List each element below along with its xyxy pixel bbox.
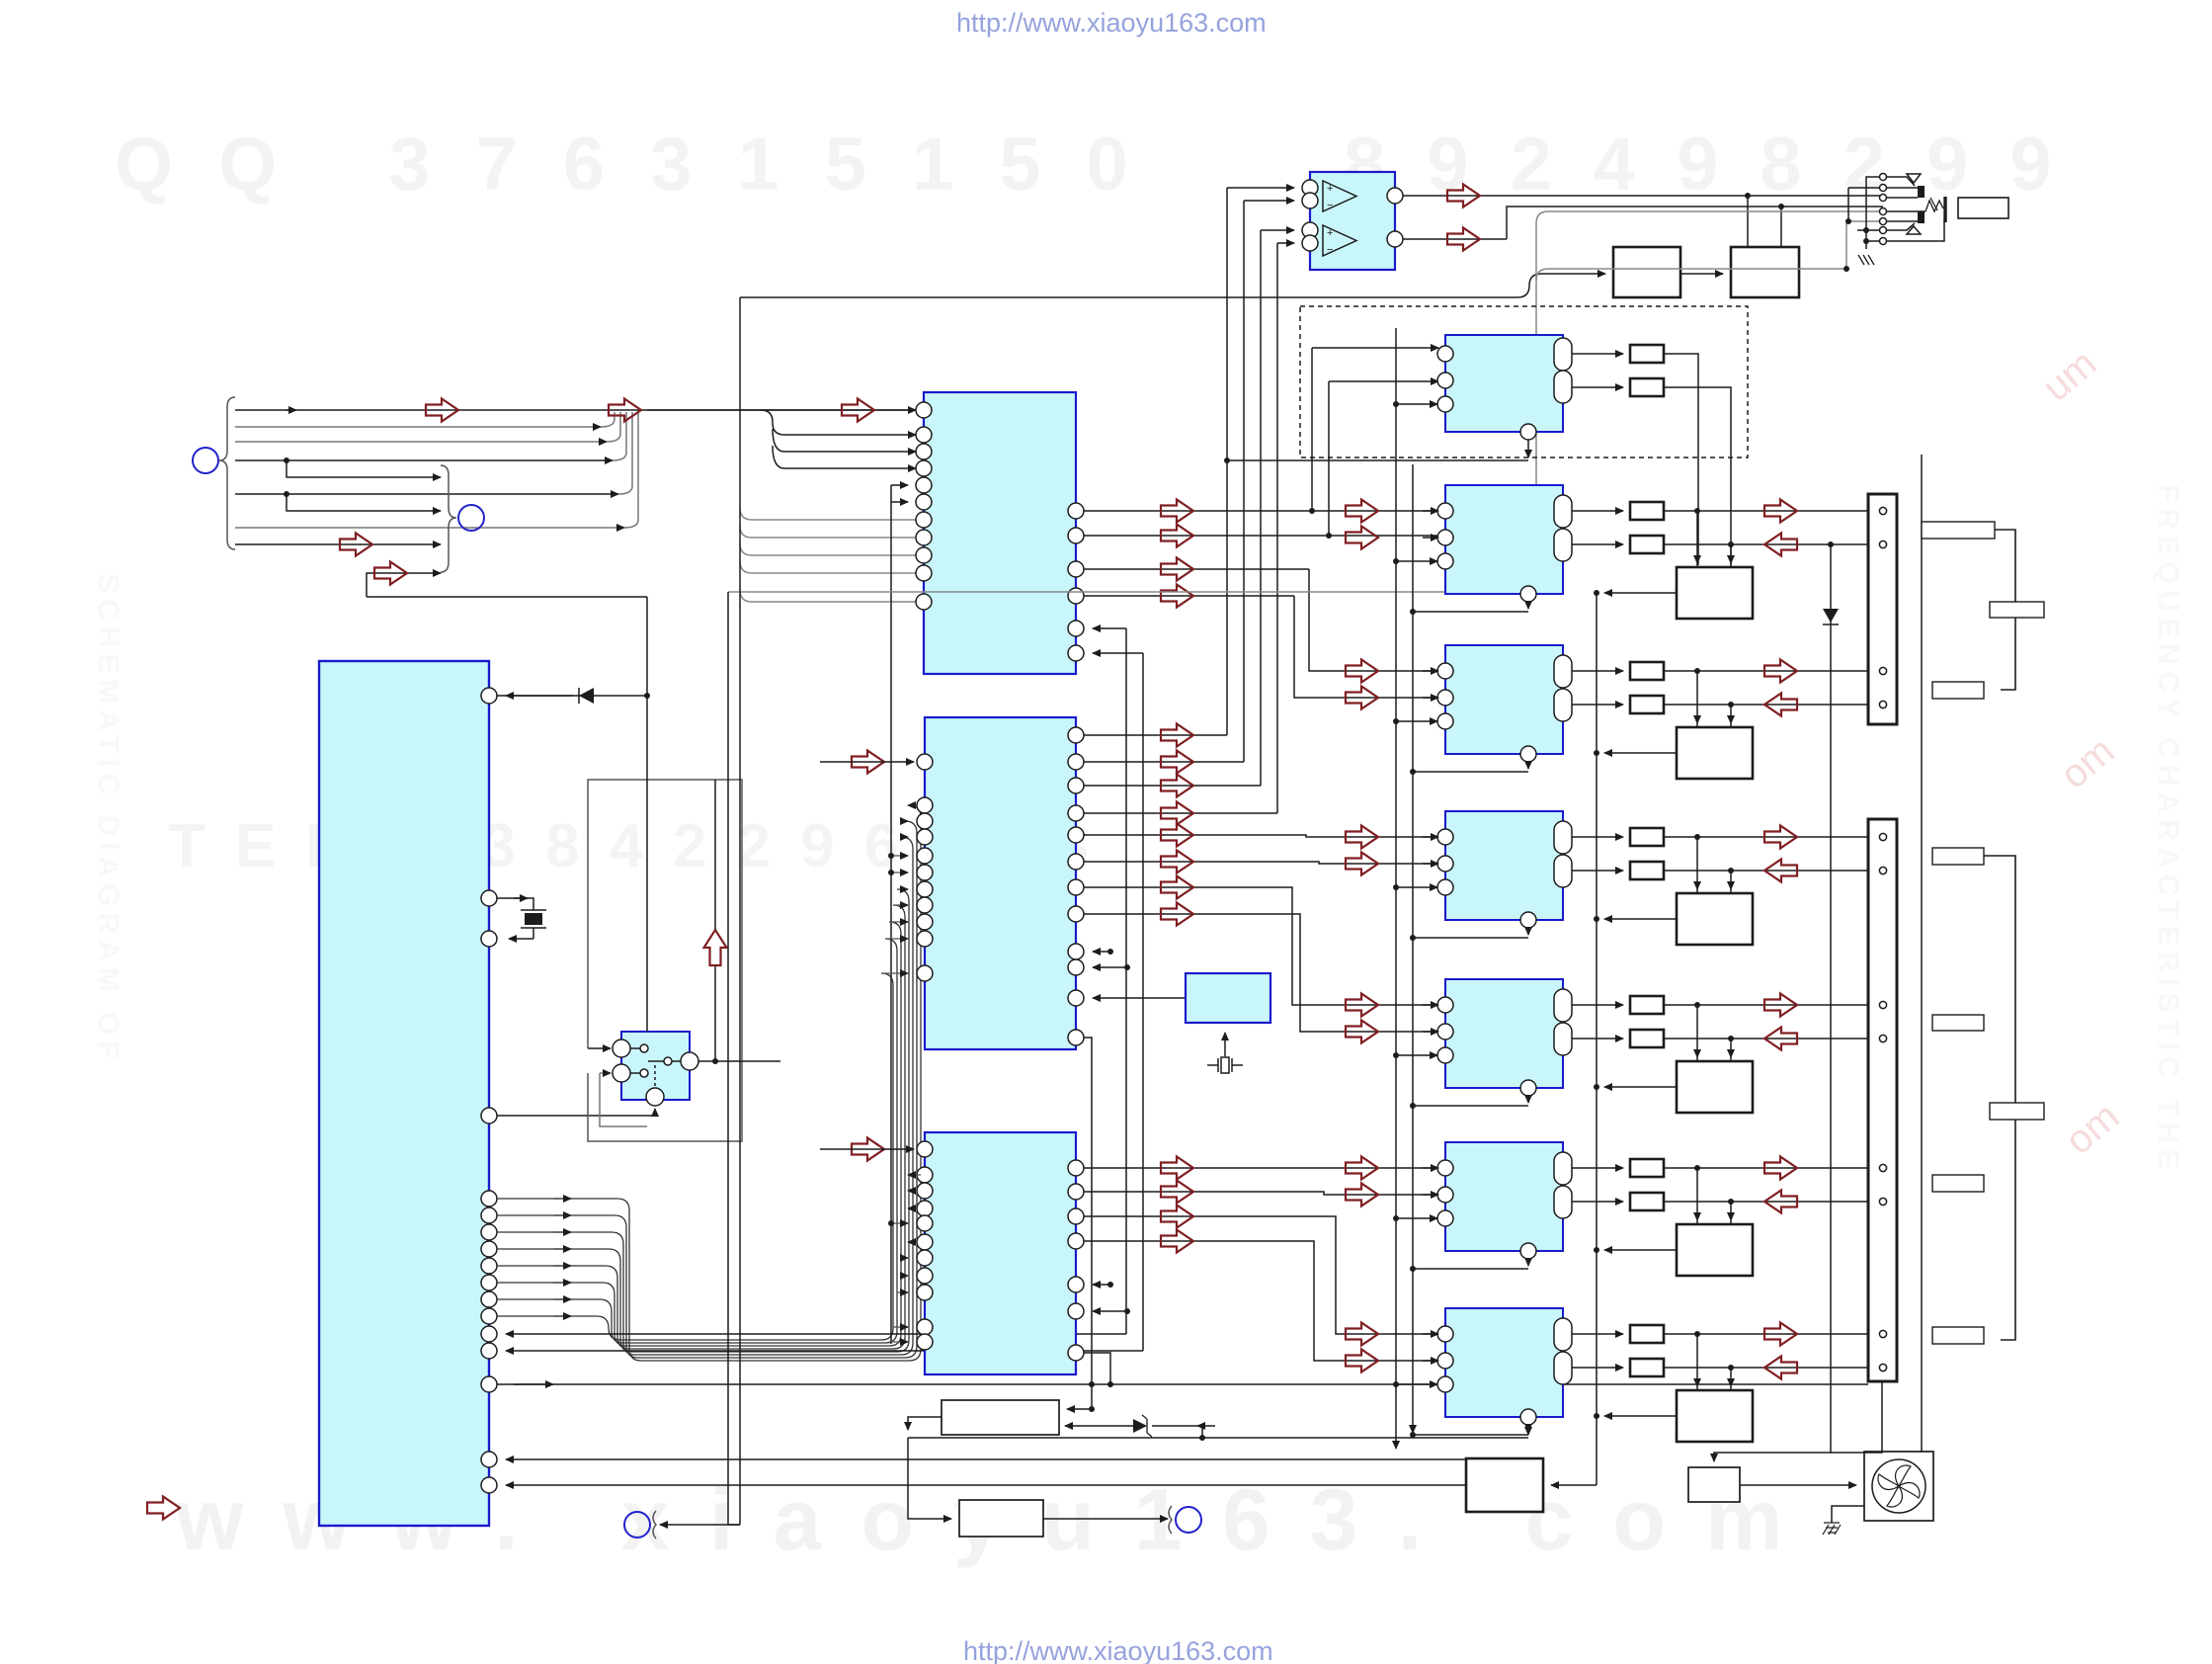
junction	[1393, 884, 1399, 890]
output stage box	[1677, 1224, 1753, 1276]
wire	[506, 1458, 1466, 1460]
wire to lower box	[908, 1438, 951, 1519]
strip pin	[1879, 701, 1886, 707]
wire out1	[1664, 1167, 1875, 1169]
MCU data pins	[481, 1191, 497, 1206]
bus vertical v14 with diode	[1714, 544, 1831, 1461]
junction	[1393, 1215, 1399, 1221]
junction	[1728, 1036, 1734, 1041]
wire	[235, 543, 441, 545]
center vertical bundle	[1226, 188, 1228, 735]
output stadium	[1554, 1352, 1572, 1384]
center control box	[1466, 1458, 1543, 1512]
svg-text:−: −	[1327, 200, 1333, 211]
wire	[1527, 440, 1529, 458]
jack contacts	[1887, 177, 1944, 241]
wire to resistor	[1572, 510, 1623, 512]
diode D1	[497, 688, 647, 704]
driver IC row1	[1445, 335, 1563, 432]
svg-text:SCHEMATIC DIAGRAM OF: SCHEMATIC DIAGRAM OF	[92, 573, 124, 1065]
wire to resistor	[1572, 870, 1623, 872]
svg-text:um: um	[2035, 341, 2105, 409]
svg-text:om: om	[2053, 728, 2123, 796]
pin	[1437, 373, 1453, 388]
block3 out wires	[1084, 1168, 1437, 1361]
wire	[820, 1148, 914, 1150]
strip pin	[1879, 1198, 1886, 1205]
output stadium	[1554, 655, 1572, 688]
signal arrow return	[1764, 694, 1797, 716]
brace left	[219, 397, 235, 549]
junction	[284, 491, 289, 497]
wire	[287, 460, 441, 477]
block3 right pins	[1068, 1160, 1084, 1176]
pin	[1437, 663, 1453, 679]
IC display driver 3	[925, 1132, 1076, 1374]
wire down	[1084, 1353, 1110, 1384]
strip pin	[1879, 667, 1886, 674]
wire out1	[1664, 1004, 1875, 1006]
blue ring	[1176, 1507, 1201, 1533]
driver IC row3	[1445, 645, 1563, 754]
wire	[235, 527, 624, 529]
output stadium	[1554, 989, 1572, 1022]
wire out1	[1664, 670, 1875, 672]
wire down	[1084, 1038, 1092, 1383]
wire to resistor	[1572, 353, 1623, 355]
pin	[1437, 346, 1453, 362]
small driver box	[1688, 1467, 1740, 1502]
gray feed bundle	[740, 508, 916, 602]
resistor	[1630, 828, 1664, 846]
resistor	[1630, 1359, 1664, 1376]
pin bottom	[1520, 1409, 1536, 1425]
resistor	[1630, 1193, 1664, 1210]
output stadium	[1554, 529, 1572, 561]
pin	[1437, 1160, 1453, 1176]
label box	[1932, 682, 1984, 699]
signal arrow return	[1764, 1028, 1797, 1050]
pin	[1437, 503, 1453, 519]
op-amp B	[1323, 225, 1356, 256]
wire	[235, 493, 618, 495]
wire input	[1067, 1384, 1092, 1409]
junction	[1594, 590, 1599, 596]
tip rect hatched	[1918, 186, 1925, 198]
input arrow	[852, 751, 884, 774]
wire out1	[1664, 1333, 1875, 1335]
wire to resistor	[1572, 1201, 1623, 1203]
sleeve bar	[1943, 197, 1946, 222]
long vertical v7	[1125, 628, 1127, 1334]
black box B2	[1731, 247, 1799, 297]
wire input3	[1396, 403, 1437, 405]
switch pin bottom	[646, 1088, 664, 1106]
junction	[1410, 935, 1416, 941]
svg-text:+: +	[1327, 227, 1333, 239]
signal arrow out	[1764, 826, 1797, 849]
junction	[1393, 718, 1399, 724]
wire from bottom pin	[1527, 1096, 1529, 1103]
signal arrow	[1346, 660, 1378, 683]
wire input stub	[1423, 510, 1438, 512]
junction	[1594, 1084, 1599, 1090]
resistor	[1630, 1159, 1664, 1177]
wire up with arrow	[714, 966, 716, 1061]
junction	[1393, 401, 1399, 407]
long vertical v8	[1142, 653, 1144, 1351]
output stage box	[1677, 567, 1753, 619]
pin bottom	[1520, 586, 1536, 602]
signal arrow	[1346, 527, 1378, 549]
wire	[235, 426, 601, 428]
junction	[644, 693, 650, 699]
vertical gray riser	[728, 211, 1879, 592]
ground	[1823, 1523, 1841, 1535]
junction	[1694, 834, 1700, 840]
junction	[1594, 1413, 1599, 1419]
wire from top bus	[740, 274, 1605, 297]
driver IC row2	[1445, 485, 1563, 594]
opamp output pins	[1387, 188, 1403, 204]
junction	[1410, 1266, 1416, 1272]
output stadium	[1554, 1152, 1572, 1185]
output stadium	[1554, 371, 1572, 403]
resistor	[1630, 502, 1664, 520]
signal arrow out	[1764, 1323, 1797, 1346]
label box	[1922, 522, 1995, 539]
switch pin	[613, 1040, 630, 1057]
IC display driver 1	[924, 392, 1076, 674]
gray link to jack	[1846, 221, 1879, 269]
junction	[1393, 558, 1399, 564]
data bus wires	[497, 805, 921, 1361]
output stadium	[1554, 855, 1572, 887]
pin	[1437, 396, 1453, 412]
wire to ring	[1043, 1518, 1168, 1520]
strip pin	[1879, 1035, 1886, 1041]
loop wire rectangle	[588, 780, 742, 1141]
long vertical to fan	[1921, 455, 1923, 1452]
driver IC row6	[1445, 1142, 1563, 1251]
pin	[481, 931, 497, 947]
signal arrow	[1346, 1350, 1378, 1373]
wire to resistor	[1572, 1333, 1623, 1335]
wire riser to row2 box	[1664, 354, 1731, 565]
wire box to bus	[1604, 1249, 1677, 1251]
zener diode D3	[1133, 1419, 1147, 1433]
output stadium	[1554, 689, 1572, 721]
wire	[1227, 459, 1528, 461]
bracket	[1995, 530, 2015, 690]
junction	[1594, 1247, 1599, 1253]
resistor	[1630, 696, 1664, 713]
crystal X2	[1224, 1033, 1226, 1056]
wire to resistor	[1572, 1367, 1623, 1369]
signal arrow	[1346, 687, 1378, 709]
wire to fan	[1740, 1484, 1856, 1486]
resistor	[1630, 996, 1664, 1014]
wire arrowhead into pin	[506, 695, 573, 697]
output stage box	[1677, 1061, 1753, 1113]
wire box to bus	[1604, 1086, 1677, 1088]
junction	[1224, 458, 1230, 463]
wire box to bus	[1604, 1415, 1677, 1417]
wire to switch	[497, 1109, 655, 1116]
wire input3	[1396, 1383, 1437, 1385]
wire top feed	[647, 409, 916, 411]
resistor	[1630, 862, 1664, 879]
wire input3	[1396, 720, 1437, 722]
block1 right pins	[1068, 503, 1084, 519]
signal arrow out	[1764, 994, 1797, 1017]
wire input3	[1396, 1217, 1437, 1219]
arrows	[1161, 500, 1193, 523]
wire input stub	[1423, 1333, 1438, 1335]
junction	[1828, 541, 1834, 547]
feedback into pins 5,6	[1093, 627, 1126, 629]
block2 left pins	[917, 754, 933, 770]
signal arrow out	[1764, 660, 1797, 683]
signal arrow	[1346, 853, 1378, 875]
junction	[1393, 1381, 1399, 1387]
junction	[1393, 1052, 1399, 1058]
wire from bottom pin	[1527, 762, 1529, 769]
connector strip CN2	[1868, 819, 1897, 1381]
v4 bus	[890, 485, 892, 1344]
wire B1 to B2	[1680, 273, 1723, 275]
strip pin	[1879, 1330, 1886, 1337]
strip pin	[1879, 1001, 1886, 1008]
junction dots on long line	[1089, 1381, 1095, 1387]
wire	[287, 494, 441, 511]
wire from bottom pin	[1527, 1425, 1529, 1432]
long wire	[497, 1383, 1868, 1385]
crystal X1	[497, 898, 533, 939]
ground	[1858, 255, 1874, 265]
wire input stub	[1423, 1167, 1438, 1169]
junction	[1694, 1331, 1700, 1337]
wire to resistor	[1572, 543, 1623, 545]
feedback stubs	[1093, 951, 1110, 953]
wire drops to box	[1696, 1005, 1698, 1057]
resistor	[1630, 1325, 1664, 1343]
wire box to bus	[1604, 752, 1677, 754]
wire into switch pin2	[600, 1072, 611, 1074]
signal arrow return	[1764, 1357, 1797, 1379]
brace	[1169, 1506, 1172, 1534]
svg-text:om: om	[2058, 1094, 2128, 1162]
junction	[1694, 1165, 1700, 1171]
diode D2	[1823, 609, 1839, 623]
risers from row1 to row2 lines	[1312, 348, 1329, 536]
junction	[1410, 609, 1416, 615]
block2 out wires	[1084, 735, 1277, 813]
opamp input pins	[1302, 180, 1318, 196]
junction	[1728, 702, 1734, 707]
wire to resistor	[1572, 1004, 1623, 1006]
pin	[1437, 829, 1453, 845]
wire to resistor	[1572, 1167, 1623, 1169]
wire	[235, 441, 607, 443]
wire from switch out	[698, 1060, 780, 1062]
wire	[235, 459, 613, 461]
svg-text:892498299: 892498299	[1344, 123, 2092, 207]
wire to resistor	[1572, 836, 1623, 838]
signal arrow return	[1764, 534, 1797, 556]
fanout vertical	[761, 410, 897, 468]
junction	[284, 458, 289, 463]
wire out2	[1664, 704, 1875, 706]
wire to resistor	[1572, 670, 1623, 672]
fan box	[1864, 1452, 1933, 1521]
wire input3	[1396, 1054, 1437, 1056]
IC system control microprocessor	[319, 661, 489, 1526]
signal arrow	[1346, 1323, 1378, 1346]
output stadium	[1554, 1023, 1572, 1055]
junction	[1594, 916, 1599, 922]
signal arrow	[374, 562, 407, 585]
brace at ring	[653, 1511, 656, 1539]
pin	[1437, 856, 1453, 872]
svg-text:−: −	[1327, 244, 1333, 256]
pin bottom	[1520, 1080, 1536, 1096]
zigzag	[1925, 198, 1943, 211]
junction	[1410, 1103, 1416, 1109]
signal arrow	[1346, 1157, 1378, 1180]
wire input stub	[1423, 1004, 1438, 1006]
vertical wire v1	[646, 597, 648, 1032]
output wire 2	[1403, 207, 1883, 239]
svg-text:+: +	[1327, 183, 1333, 195]
wire to resistor	[1572, 704, 1623, 706]
brace right	[441, 465, 456, 572]
connector strip CN1	[1868, 494, 1897, 724]
switch block S1	[621, 1032, 690, 1100]
dashed enclosure	[1300, 306, 1748, 458]
block1 left pins	[916, 402, 932, 418]
svg-text:http://www.xiaoyu163.com: http://www.xiaoyu163.com	[963, 1636, 1273, 1664]
label box mid	[1990, 1103, 2044, 1120]
wire from resistor left	[908, 1417, 942, 1430]
pin	[1437, 997, 1453, 1013]
gray branch to jack	[1536, 269, 1846, 281]
wire strip2 drop	[1831, 1381, 1882, 1453]
wire drops to box	[1696, 671, 1698, 723]
IC headphone amp	[1310, 172, 1395, 270]
bracket 2	[1984, 856, 2015, 1340]
reset IC output wire	[1093, 997, 1186, 999]
fan M1	[1872, 1459, 1925, 1513]
junction	[1694, 668, 1700, 674]
vertical v2	[728, 297, 740, 1525]
wire out1	[1664, 510, 1875, 512]
junction	[1694, 1002, 1700, 1008]
block1 out wires	[1084, 510, 1437, 512]
output stage box	[1677, 1390, 1753, 1442]
pin	[1437, 530, 1453, 545]
IC display driver 2	[925, 717, 1076, 1049]
pin bottom	[1520, 424, 1536, 440]
connector ring P2	[458, 505, 484, 531]
junction	[1728, 1365, 1734, 1371]
switch contacts	[640, 1044, 648, 1052]
pin	[1437, 1353, 1453, 1369]
signal arrow return	[1764, 1191, 1797, 1213]
signal arrow out	[1764, 1157, 1797, 1180]
pin	[1437, 1376, 1453, 1392]
wire out2	[1664, 543, 1875, 545]
wire to resistor	[1572, 1038, 1623, 1040]
black box B1	[1613, 247, 1680, 297]
signal arrow	[1346, 826, 1378, 849]
input arrow	[852, 1138, 884, 1161]
bus vertical v12	[1412, 464, 1414, 1433]
resistor	[1630, 345, 1664, 363]
wire out2	[1664, 870, 1875, 872]
strip pin	[1879, 1164, 1886, 1171]
junction	[1694, 508, 1700, 514]
resistor	[1630, 1030, 1664, 1047]
wire drops to box	[1696, 511, 1698, 563]
stub wires	[908, 804, 909, 806]
blue ring bottom	[624, 1512, 650, 1538]
pin bottom	[1520, 746, 1536, 762]
wire input stub	[1423, 836, 1438, 838]
driver IC row4	[1445, 811, 1563, 920]
block3 left pins	[917, 1141, 933, 1157]
output stadium	[1554, 821, 1572, 854]
bundle curls merging to bus	[601, 412, 638, 528]
pin	[481, 890, 497, 906]
junction	[1594, 750, 1599, 756]
output stadium	[1554, 1318, 1572, 1351]
svg-text:FREQUENCY CHARACTERISTIC THE: FREQUENCY CHARACTERISTIC THE	[2152, 484, 2184, 1175]
stub wires	[908, 1174, 921, 1176]
signal arrow	[1346, 994, 1378, 1017]
strip pin	[1879, 833, 1886, 840]
junction	[1410, 1432, 1416, 1438]
wire box to bus	[1604, 592, 1677, 594]
ballast resistor block	[942, 1400, 1059, 1435]
pin bottom	[1520, 1243, 1536, 1259]
pin	[481, 688, 497, 704]
wire from bottom pin	[1527, 602, 1529, 609]
signal arrow	[340, 534, 372, 556]
wire into switch pin1	[588, 1047, 611, 1049]
wire out2	[1664, 1367, 1875, 1369]
label box	[1932, 848, 1984, 865]
pin	[1437, 1047, 1453, 1063]
wire out2	[1664, 1038, 1875, 1040]
signal arrow	[1346, 1184, 1378, 1206]
fan ground wire	[1832, 1506, 1864, 1523]
wire to resistor	[1572, 386, 1623, 388]
output stadium	[1554, 495, 1572, 528]
label box mid	[1990, 602, 2044, 618]
pin	[1437, 1187, 1453, 1203]
pin	[481, 1108, 497, 1123]
bus vertical v11	[1395, 328, 1397, 1449]
lower box	[959, 1500, 1043, 1537]
junction	[1728, 868, 1734, 874]
signal arrow	[609, 399, 641, 422]
pin	[1437, 1326, 1453, 1342]
junction	[1728, 541, 1734, 547]
bus vertical v13	[1551, 593, 1597, 1485]
wire	[506, 1484, 1466, 1486]
pin	[1437, 1024, 1453, 1040]
